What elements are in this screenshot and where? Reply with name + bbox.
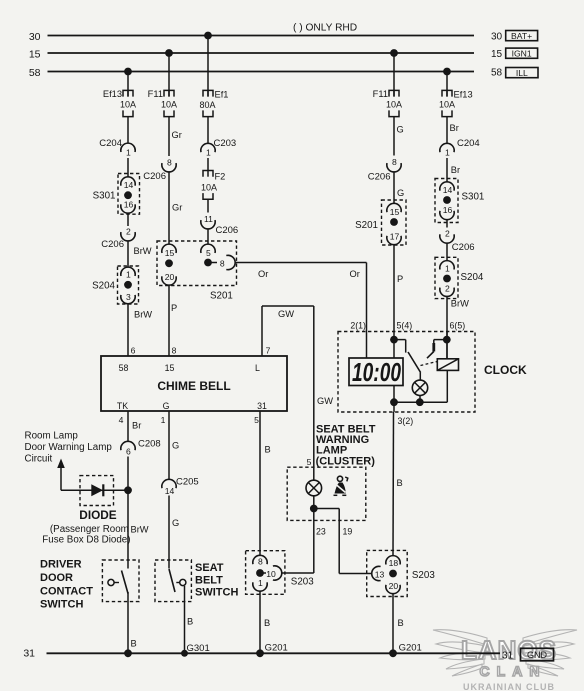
svg-text:S203: S203 [291, 577, 314, 588]
pin 23 label [316, 527, 326, 537]
seat belt warning lamp label [316, 423, 376, 467]
svg-text:CONTACT: CONTACT [40, 585, 93, 597]
clock switch blade [408, 352, 421, 380]
svg-text:BELT: BELT [195, 574, 223, 586]
wire label Gr 2 [172, 203, 182, 213]
junction bus15-col4 [390, 49, 398, 57]
wire label Or 2 [350, 269, 360, 279]
node 58 bus [29, 67, 474, 79]
svg-text:Or: Or [350, 269, 360, 279]
connector C206 pin8 left [143, 157, 176, 182]
svg-text:15: 15 [29, 48, 41, 60]
svg-text:G: G [172, 518, 179, 528]
svg-text:G201: G201 [399, 643, 422, 654]
svg-text:1: 1 [445, 148, 450, 158]
wire fuse to C204 right [446, 117, 448, 144]
wire label G 3 [172, 441, 179, 451]
junction bus15-col2 [165, 49, 173, 57]
svg-text:Br: Br [450, 123, 459, 133]
svg-text:15: 15 [390, 207, 400, 217]
diode symbol [91, 484, 103, 496]
svg-text:B: B [265, 445, 271, 455]
wire chime G to C205 [168, 411, 170, 480]
chime pin 31 [257, 401, 267, 411]
svg-text:10A: 10A [120, 99, 136, 109]
svg-text:Ef13: Ef13 [454, 90, 473, 100]
pin 6 label [131, 345, 136, 355]
svg-text:C206: C206 [368, 172, 391, 183]
fuse Ef1 [200, 90, 229, 117]
wire fuse to C206-8 right [393, 117, 395, 156]
pin 4 label [119, 415, 124, 425]
svg-text:10A: 10A [161, 99, 177, 109]
svg-text:10A: 10A [201, 183, 217, 193]
svg-text:CHIME BELL: CHIME BELL [157, 379, 230, 393]
wire C204 to S301 right [446, 158, 448, 182]
svg-text:Gr: Gr [172, 130, 182, 140]
fuse F11 left [148, 89, 177, 117]
ground G201 right [389, 643, 422, 658]
junction lamp out [310, 505, 318, 513]
svg-text:S301: S301 [93, 191, 116, 202]
splice S204 right pins [440, 261, 454, 297]
svg-text:B: B [187, 617, 193, 627]
clock box [338, 332, 475, 413]
svg-text:SEAT: SEAT [195, 562, 224, 574]
svg-text:P: P [397, 274, 403, 284]
junction bus58-col5 [443, 68, 451, 76]
svg-text:GW: GW [317, 396, 333, 406]
svg-text:1: 1 [126, 147, 131, 157]
svg-text:10: 10 [266, 569, 276, 579]
junction door switch bus [124, 649, 132, 657]
svg-text:SWITCH: SWITCH [195, 587, 238, 599]
svg-text:( ) ONLY RHD: ( ) ONLY RHD [293, 23, 357, 34]
wire label B [265, 445, 271, 455]
connector C203 pin1 [201, 138, 236, 158]
seat belt warning lamp box [287, 467, 366, 520]
svg-text:S204: S204 [92, 281, 115, 292]
fuse F2 [201, 171, 225, 200]
seat belt switch box [155, 560, 191, 602]
svg-text:C208: C208 [138, 439, 161, 450]
svg-text:BrW: BrW [134, 246, 152, 256]
driver door contact switch label [40, 559, 93, 611]
clock linkage dashed [421, 362, 438, 366]
splice S204 left pins [121, 267, 135, 304]
wire F2 to C206-11 [207, 199, 209, 212]
node 30 label right [491, 32, 503, 43]
svg-text:7: 7 [266, 345, 271, 355]
wire label BrW 2 [134, 310, 152, 320]
wire chime TK to C208 [127, 411, 129, 442]
fuse Ef13 right [439, 90, 473, 117]
wire label Gr [172, 130, 182, 140]
connector C204 pin1 right [440, 138, 480, 158]
splice S204 left box [92, 266, 138, 304]
svg-text:5(4): 5(4) [397, 321, 413, 331]
node GND box [521, 648, 554, 661]
svg-text:CLAN: CLAN [480, 663, 547, 679]
svg-text:5: 5 [254, 415, 259, 425]
svg-text:DIODE: DIODE [79, 508, 116, 522]
svg-text:G: G [163, 401, 170, 411]
svg-text:G201: G201 [265, 643, 288, 654]
wire label BrW 3 [131, 525, 149, 535]
svg-text:1: 1 [258, 578, 263, 588]
svg-text:5: 5 [307, 457, 312, 467]
wire label P right [397, 274, 403, 284]
wire 19 down [339, 520, 372, 573]
svg-text:20: 20 [165, 272, 175, 282]
wire label G [397, 125, 404, 135]
driver door contact switch [108, 571, 128, 594]
node 15 bus [29, 48, 474, 60]
connector C204 pin1 left [99, 138, 135, 157]
svg-text:BAT+: BAT+ [511, 31, 532, 41]
svg-text:80A: 80A [200, 100, 216, 110]
svg-text:6: 6 [131, 345, 136, 355]
svg-text:2(1): 2(1) [350, 321, 366, 331]
wire label Br [450, 123, 459, 133]
wire C205 to seat belt switch [168, 496, 170, 569]
svg-text:C204: C204 [99, 138, 122, 149]
chime bell title [157, 379, 230, 393]
connector C206 pin2 right [440, 228, 475, 253]
watermark logo [433, 630, 577, 691]
wire display to 3(2) [393, 386, 394, 556]
svg-text:30: 30 [491, 32, 503, 43]
splice S203 right box [367, 550, 436, 596]
svg-text:Circuit: Circuit [25, 454, 53, 465]
svg-text:Ef13: Ef13 [103, 89, 122, 99]
svg-text:31: 31 [502, 651, 514, 662]
wire label B 5 [264, 618, 270, 628]
pin 5 label chime 31 [254, 415, 259, 425]
wire S201 to chime pin8 [168, 285, 170, 356]
arrow to room lamp circuit [57, 459, 65, 491]
wire bus30 to fuse Ef1 [207, 36, 209, 97]
svg-text:16: 16 [443, 205, 453, 215]
room lamp circuit note [25, 431, 113, 465]
pin 1 label chime G [161, 415, 166, 425]
connector C206 pin11 [201, 214, 238, 236]
wire 23 down [282, 509, 314, 574]
svg-text:C206: C206 [101, 239, 124, 250]
node 31 bus [23, 648, 500, 660]
seat belt icon [334, 476, 348, 495]
splice S203 right pins [372, 556, 400, 594]
svg-text:C205: C205 [176, 476, 199, 487]
svg-text:19: 19 [343, 527, 353, 537]
fuse Ef13 left [103, 89, 136, 117]
splice S301 right box [435, 179, 484, 223]
junction clock lamp bottom [416, 398, 424, 406]
chime pin G [163, 401, 170, 411]
pin 8 label [172, 345, 177, 355]
splice S203 left pins [253, 555, 282, 591]
svg-text:Room Lamp: Room Lamp [25, 431, 79, 442]
splice S301 left box [93, 174, 140, 215]
pin 19 label [343, 527, 353, 537]
svg-text:B: B [397, 478, 403, 488]
svg-text:15: 15 [491, 49, 503, 60]
wire rheostat to bottom [446, 370, 448, 402]
svg-text:2: 2 [445, 228, 450, 238]
wire S301 to C206-2 right [446, 220, 448, 228]
svg-text:S204: S204 [461, 272, 484, 283]
wire label B 6 [398, 618, 404, 628]
chime pin 58 [119, 363, 129, 373]
node 30 bus [29, 31, 474, 43]
splice S301 left pins [121, 177, 135, 213]
svg-text:Fuse Box D8 Diode): Fuse Box D8 Diode) [42, 535, 130, 546]
svg-text:16: 16 [124, 199, 134, 209]
svg-text:(Passenger Room: (Passenger Room [50, 524, 129, 535]
clock label [484, 363, 527, 377]
svg-text:GND: GND [527, 650, 548, 660]
svg-text:C206: C206 [216, 225, 239, 236]
wire S203 left to G201 [259, 591, 261, 653]
connector C205 pin14 [162, 476, 199, 496]
svg-text:3(2): 3(2) [398, 416, 414, 426]
wire S203 right to G201 [392, 594, 394, 654]
wire C208 to diode node [127, 457, 129, 491]
connector C208 pin6 [121, 439, 161, 457]
svg-text:31: 31 [23, 648, 35, 660]
svg-text:ILL: ILL [516, 68, 528, 78]
connector C206 pin8 right [368, 157, 401, 183]
diode note [42, 524, 130, 546]
svg-text:S203: S203 [412, 570, 435, 581]
svg-text:2: 2 [126, 226, 131, 236]
svg-text:B: B [398, 618, 404, 628]
chime pin 15 [165, 363, 175, 373]
node BAT+ box [506, 31, 538, 41]
splice S201 pin5/8 [201, 244, 235, 270]
svg-text:14: 14 [165, 486, 175, 496]
diode label [79, 508, 116, 522]
svg-text:C206: C206 [452, 242, 475, 253]
wire GW net [262, 306, 314, 467]
svg-text:13: 13 [375, 570, 385, 580]
svg-text:11: 11 [204, 214, 213, 224]
wire label BrW [134, 246, 152, 256]
wire label B 4 [397, 478, 403, 488]
junction bus58-col1 [124, 68, 132, 76]
svg-text:TK: TK [117, 401, 128, 411]
clock pin 3(2) label [398, 416, 414, 426]
svg-text:8: 8 [167, 157, 172, 167]
svg-text:B: B [264, 618, 270, 628]
wire diode branch [61, 489, 128, 491]
svg-text:2: 2 [445, 283, 450, 293]
svg-text:BrW: BrW [451, 299, 469, 309]
svg-text:BrW: BrW [131, 525, 149, 535]
svg-text:DRIVER: DRIVER [40, 559, 82, 571]
svg-text:GW: GW [278, 309, 294, 319]
lamp symbol cluster [306, 467, 322, 496]
clock pin 2(1) label [350, 321, 366, 331]
ground G201 left [256, 643, 288, 658]
wire C203 to F2 [207, 158, 209, 171]
wire C204 to S301 [127, 158, 129, 177]
svg-text:Br: Br [451, 165, 460, 175]
wire seat belt switch to G301 [184, 586, 186, 653]
node 58 label right [491, 68, 503, 79]
wire bus15 to fuse F11 [168, 53, 170, 97]
junction clock 6(5) [443, 336, 451, 344]
wire bus15 to fuse F11 right [393, 53, 395, 97]
wire C206 to S201 right [393, 172, 395, 204]
splice S201 right pins [387, 203, 401, 244]
splice S201 pin15/20 [162, 244, 176, 285]
fuse F11 right [373, 89, 402, 117]
svg-text:C203: C203 [214, 138, 237, 149]
svg-text:Or: Or [258, 269, 268, 279]
svg-text:G: G [172, 441, 179, 451]
wire S204 to clock 6(5) [446, 296, 448, 359]
wire C206-11 to S201 [207, 229, 209, 245]
svg-text:IGN1: IGN1 [512, 48, 532, 58]
svg-text:15: 15 [165, 248, 175, 258]
wire Or S201 to clock [235, 263, 367, 359]
svg-text:1: 1 [206, 148, 211, 158]
ground G301 [181, 643, 210, 657]
svg-text:8: 8 [392, 157, 397, 167]
wire door switch to bus31 [127, 592, 129, 653]
svg-text:17: 17 [390, 231, 400, 241]
splice S203 left box [246, 551, 315, 595]
svg-text:58: 58 [119, 363, 129, 373]
splice S201 left box [157, 241, 237, 301]
wire label B 2 [131, 639, 137, 649]
wire clock bottom [394, 401, 447, 403]
svg-text:23: 23 [316, 527, 326, 537]
chime pin L [255, 363, 260, 373]
wire label G 2 [397, 188, 404, 198]
connector C206 pin2 left [101, 226, 135, 250]
splice S301 right pins [440, 182, 454, 220]
svg-text:SWITCH: SWITCH [40, 599, 83, 611]
svg-text:10:00: 10:00 [352, 357, 401, 387]
node ILL box [506, 68, 538, 78]
clock set contact [427, 340, 447, 359]
junction diode node [124, 486, 132, 494]
clock switch fixed contact [394, 340, 406, 353]
svg-text:S201: S201 [355, 220, 378, 231]
chime bell box [101, 356, 287, 411]
svg-text:Gr: Gr [172, 203, 182, 213]
wire lamp junction branch [314, 509, 339, 521]
svg-text:BrW: BrW [134, 310, 152, 320]
svg-text:C204: C204 [457, 138, 480, 149]
svg-text:S301: S301 [462, 192, 485, 203]
svg-text:1: 1 [126, 269, 131, 279]
svg-text:14: 14 [124, 180, 134, 190]
svg-text:14: 14 [443, 185, 453, 195]
junction clock bottom left [390, 398, 398, 406]
svg-text:Ef1: Ef1 [215, 90, 229, 100]
wire label BrW right [451, 299, 469, 309]
svg-text:10A: 10A [439, 99, 455, 109]
svg-text:31: 31 [257, 401, 267, 411]
svg-text:Br: Br [132, 421, 141, 431]
wire label GW [278, 309, 294, 319]
wire label B 3 [187, 617, 193, 627]
wire label P [171, 303, 177, 313]
svg-text:F2: F2 [215, 172, 226, 182]
clock pin 5(4) label [397, 321, 413, 331]
wire bus58 to fuse Ef13 [127, 72, 129, 97]
svg-text:1: 1 [161, 415, 166, 425]
wire chime 31 to S203 [259, 411, 261, 556]
wire fuse to C204 [127, 117, 129, 144]
node IGN1 box [506, 48, 538, 58]
wire bus58 to fuse Ef13 right [446, 72, 448, 97]
svg-text:DOOR: DOOR [40, 572, 73, 584]
svg-text:UKRAINIAN CLUB: UKRAINIAN CLUB [463, 682, 555, 691]
svg-text:30: 30 [29, 31, 41, 43]
wire fuse Ef1 to C203 [207, 117, 209, 144]
wire C206 to S204 right [446, 243, 448, 261]
diode D box [80, 476, 114, 506]
wire label G 4 [172, 518, 179, 528]
seat belt switch [169, 569, 186, 592]
wire 6(5) to rheostat [446, 332, 448, 359]
svg-text:6(5): 6(5) [450, 321, 466, 331]
clock pin 6(5) label [450, 321, 466, 331]
seat belt switch label [195, 562, 238, 599]
wire lamp to junction [313, 496, 315, 509]
svg-text:P: P [171, 303, 177, 313]
svg-text:18: 18 [389, 558, 399, 568]
wire diode node to door switch [127, 490, 129, 568]
svg-text:8: 8 [220, 259, 225, 269]
svg-text:20: 20 [389, 581, 399, 591]
wire label Br 2 [451, 165, 460, 175]
splice S201 right box [355, 200, 406, 245]
svg-text:G: G [397, 125, 404, 135]
svg-text:CLOCK: CLOCK [484, 363, 527, 377]
wire C206 to S204 [127, 241, 129, 267]
wire clock lamp bottom [419, 396, 421, 403]
svg-text:C206: C206 [143, 171, 166, 182]
svg-text:4: 4 [119, 415, 124, 425]
svg-text:(CLUSTER): (CLUSTER) [316, 455, 376, 467]
node 31 label right [502, 651, 514, 662]
wire label GW 2 [317, 396, 333, 406]
svg-text:8: 8 [172, 345, 177, 355]
driver door contact switch box [102, 560, 139, 602]
pin 5 label lamp [307, 457, 312, 467]
svg-text:15: 15 [165, 363, 175, 373]
svg-text:1: 1 [445, 263, 450, 273]
svg-text:6: 6 [126, 446, 131, 456]
junction clock 5(4) [390, 336, 398, 344]
svg-text:G301: G301 [187, 643, 210, 654]
clock dimmer rheostat [437, 359, 458, 371]
clock display U1 [349, 357, 403, 387]
pin 7 label [266, 345, 271, 355]
wire label Br 3 [132, 421, 141, 431]
junction bus30-col3 [204, 32, 212, 40]
svg-text:58: 58 [29, 67, 41, 79]
wire fuse to C206-8 [168, 117, 170, 156]
wire S201 to clock 5(4) [393, 245, 395, 359]
note ONLY RHD [293, 23, 357, 34]
node 15 label right [491, 49, 503, 60]
